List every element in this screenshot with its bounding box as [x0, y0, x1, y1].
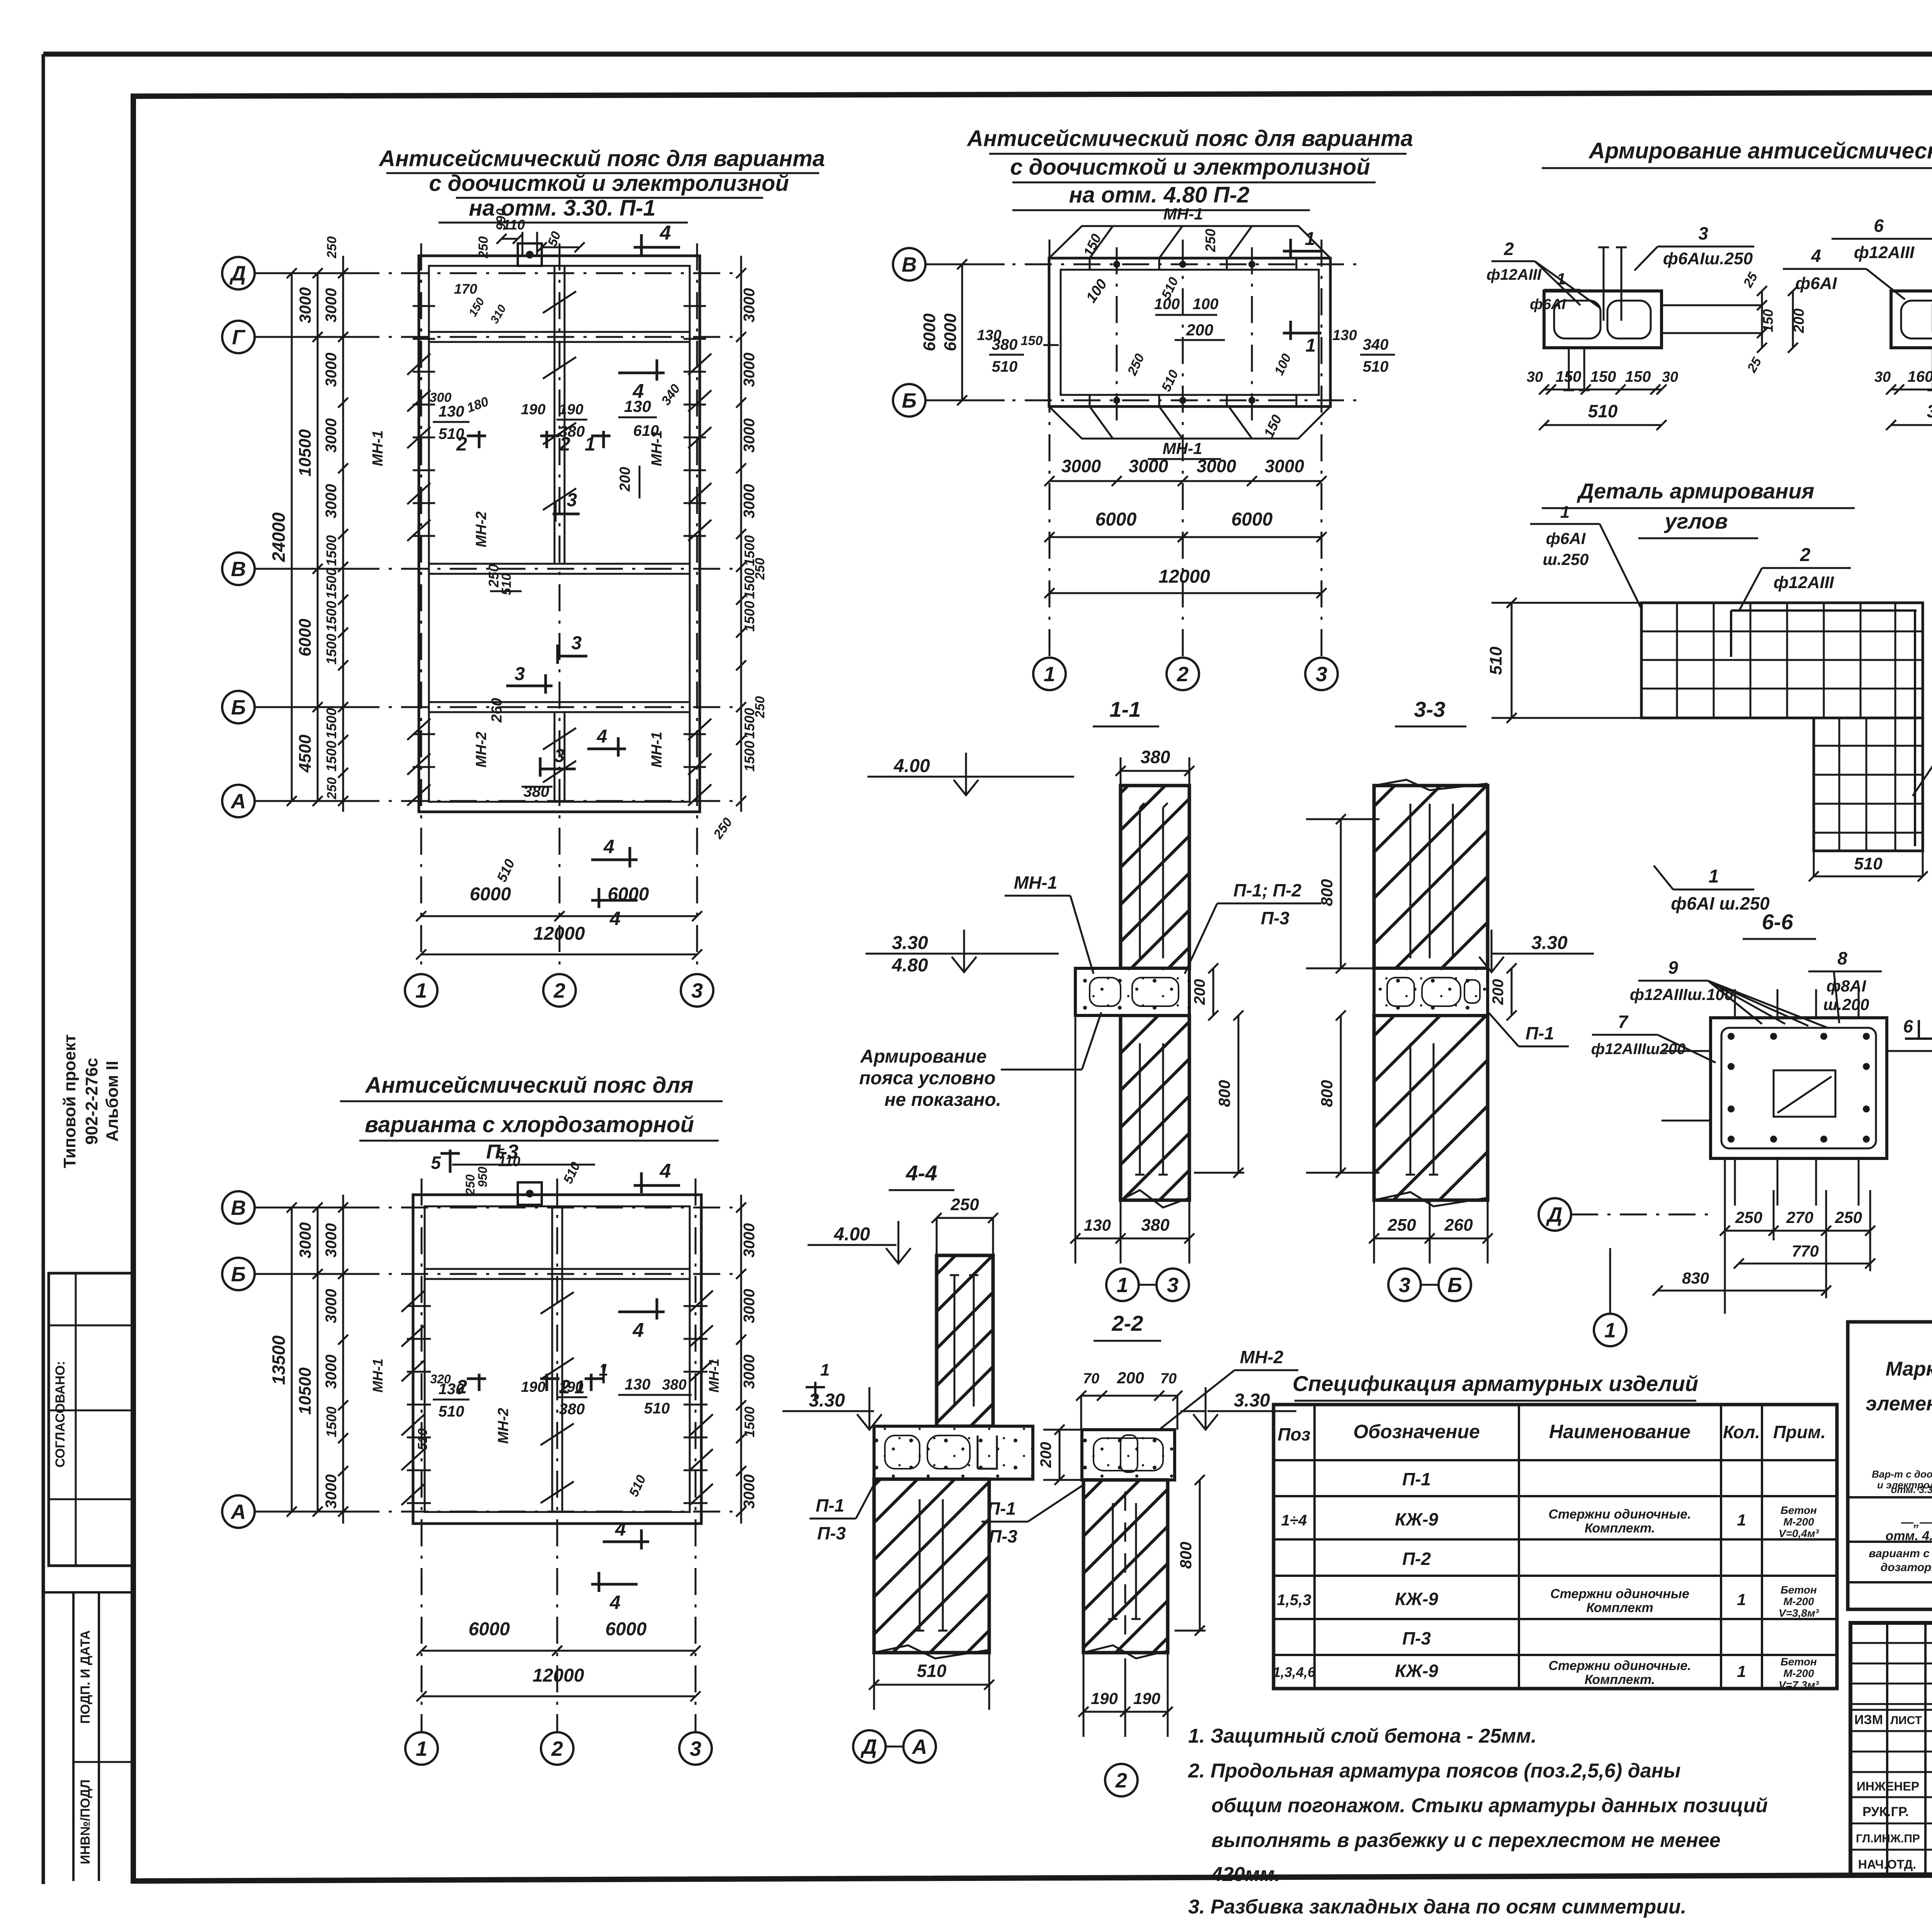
plan П-1 axis circles Д Г В Б А: [222, 257, 255, 289]
plan П-3 column circles 1 2 3: [405, 1732, 438, 1765]
svg-text:1500: 1500: [323, 741, 339, 772]
svg-text:3000: 3000: [1197, 456, 1236, 476]
svg-text:П-1; П-2: П-1; П-2: [1233, 880, 1301, 900]
section 4-4 lower wall rebar: [919, 1499, 921, 1631]
svg-text:6000: 6000: [608, 884, 649, 905]
svg-text:выполнять в разбежку и с пере: выполнять в разбежку и с перехлестом не …: [1211, 1829, 1721, 1852]
stamp row ИЗМ ЛИСТ ДОКУМ: [1850, 1709, 1932, 1711]
svg-text:800: 800: [1318, 879, 1336, 906]
plan П-1 left dimension chain groups: [317, 273, 319, 801]
left margin table ИНВ ПОДЛ ПОДП: [72, 1592, 75, 1881]
svg-text:1500: 1500: [323, 535, 339, 566]
svg-text:200: 200: [617, 467, 633, 492]
svg-text:Антисейсмический пояс для вари: Антисейсмический пояс для варианта: [966, 126, 1413, 151]
svg-text:1. Защитный слой бетона - 25мм: 1. Защитный слой бетона - 25мм.: [1188, 1725, 1537, 1747]
svg-text:4.00: 4.00: [893, 756, 930, 776]
section 2-2 bottom break: [1083, 1645, 1168, 1658]
svg-text:2: 2: [1115, 1769, 1127, 1792]
svg-text:элемента: элемента: [1866, 1393, 1932, 1415]
svg-text:1,5,3: 1,5,3: [1277, 1592, 1311, 1609]
svg-text:250: 250: [753, 558, 767, 580]
svg-text:П-3: П-3: [1261, 908, 1289, 928]
section 1-1 dim 380 top: [1121, 770, 1189, 772]
svg-text:М-200: М-200: [1783, 1667, 1814, 1679]
svg-text:3. Разбивка закладных дана по: 3. Разбивка закладных дана по осям симме…: [1188, 1896, 1686, 1918]
svg-text:П-1: П-1: [1526, 1023, 1554, 1043]
plan П-2 axis circles В Б: [893, 248, 925, 281]
svg-text:дозаторной: дозаторной: [1881, 1561, 1932, 1574]
svg-text:А: А: [230, 790, 246, 813]
svg-text:190: 190: [559, 401, 583, 418]
svg-text:Прим.: Прим.: [1773, 1422, 1826, 1442]
section 2-2 rebar legs: [1112, 1503, 1114, 1619]
svg-text:2: 2: [551, 1737, 563, 1760]
plan П-2 section flags 1: [1283, 250, 1321, 253]
beam section A outer: [1544, 291, 1662, 348]
svg-text:4: 4: [609, 908, 621, 929]
section 1-1 wall hatched below belt: [1121, 1015, 1189, 1200]
svg-text:2: 2: [1800, 545, 1811, 565]
svg-text:П-3: П-3: [1402, 1628, 1431, 1648]
svg-text:1: 1: [1709, 866, 1719, 887]
svg-text:3: 3: [1399, 1274, 1410, 1297]
svg-text:1: 1: [820, 1361, 830, 1379]
section 1-1 bottom dims 130 380: [1075, 1238, 1189, 1240]
svg-text:260: 260: [1444, 1216, 1473, 1235]
svg-text:1÷4: 1÷4: [1281, 1512, 1307, 1529]
svg-text:3000: 3000: [296, 1222, 314, 1258]
svg-text:6-6: 6-6: [1762, 910, 1794, 934]
svg-text:1500: 1500: [323, 568, 339, 599]
svg-text:Комплект.: Комплект.: [1585, 1672, 1655, 1687]
plan П-3 outer walls: [413, 1195, 701, 1524]
svg-text:3000: 3000: [741, 1475, 758, 1509]
svg-text:Б: Б: [902, 389, 917, 412]
svg-text:4500: 4500: [296, 735, 315, 773]
section 3-3 dim 200 right: [1511, 968, 1513, 1015]
svg-text:5: 5: [497, 1146, 505, 1161]
svg-text:200: 200: [1117, 1369, 1144, 1387]
svg-text:510: 510: [415, 1429, 430, 1451]
svg-text:Д: Д: [1546, 1203, 1563, 1226]
svg-text:ф12АIII: ф12АIII: [1774, 573, 1834, 592]
section 4-4 dim 250 top: [937, 1217, 993, 1219]
svg-text:МН-1: МН-1: [706, 1359, 722, 1393]
svg-text:6000: 6000: [605, 1619, 647, 1639]
svg-text:Комплект: Комплект: [1586, 1600, 1653, 1615]
svg-text:990: 990: [494, 209, 509, 231]
svg-text:СОГЛАСОВАНО:: СОГЛАСОВАНО:: [53, 1361, 68, 1468]
svg-text:510: 510: [1854, 854, 1883, 873]
svg-text:250: 250: [325, 236, 339, 259]
svg-text:Альбом II: Альбом II: [103, 1061, 122, 1141]
svg-text:Бетон: Бетон: [1781, 1584, 1817, 1596]
section 3-3 bottom break line: [1374, 1192, 1488, 1206]
svg-text:3: 3: [571, 633, 582, 653]
plan П-3 bottom dimension chains: [422, 1650, 557, 1652]
svg-text:380: 380: [559, 423, 585, 440]
svg-text:8: 8: [1837, 948, 1847, 968]
svg-text:1500: 1500: [323, 634, 339, 665]
section 4-4 dim 510 bottom: [874, 1684, 989, 1686]
stamp left thin rows: [1850, 1642, 1932, 1644]
svg-text:Стержни одиночные.: Стержни одиночные.: [1548, 1507, 1691, 1522]
svg-text:3: 3: [1316, 663, 1327, 686]
corner detail dim 510 left: [1511, 603, 1513, 718]
plan П-1 section flags 3: [553, 513, 580, 515]
spec table grid: [1274, 1405, 1837, 1689]
svg-text:150: 150: [1590, 368, 1616, 385]
svg-text:V=3,8м³: V=3,8м³: [1779, 1607, 1819, 1619]
svg-text:П-1: П-1: [987, 1498, 1016, 1519]
svg-text:5: 5: [431, 1153, 441, 1173]
svg-text:3000: 3000: [741, 418, 758, 453]
svg-text:П-3: П-3: [817, 1523, 846, 1543]
svg-text:3000: 3000: [323, 418, 340, 453]
svg-text:3000: 3000: [1265, 456, 1304, 476]
svg-text:10500: 10500: [296, 1367, 315, 1415]
svg-text:не показано.: не показано.: [884, 1090, 1001, 1110]
svg-text:250: 250: [1387, 1216, 1416, 1235]
plan П-1 section flag 4 mid: [618, 372, 665, 374]
svg-text:3000: 3000: [323, 484, 340, 519]
plan П-3 wall on axis 2: [551, 1206, 553, 1512]
svg-text:МН-1: МН-1: [1014, 872, 1057, 893]
svg-text:30: 30: [1662, 369, 1678, 385]
svg-text:130: 130: [439, 403, 464, 420]
svg-text:4: 4: [660, 222, 671, 244]
svg-text:3.30: 3.30: [1531, 933, 1568, 953]
svg-text:1: 1: [1556, 270, 1565, 288]
svg-text:200: 200: [1791, 308, 1807, 333]
svg-text:Стержни одиночные.: Стержни одиночные.: [1548, 1658, 1691, 1673]
svg-text:260: 260: [489, 698, 505, 723]
svg-text:V=0,4м³: V=0,4м³: [1779, 1527, 1819, 1539]
plan П-2 walls: [1049, 258, 1330, 406]
svg-text:3: 3: [1698, 223, 1708, 243]
svg-text:70: 70: [1160, 1371, 1177, 1387]
beam section A slab extension: [1662, 304, 1762, 306]
section 1-1 axis circles 1 3: [1106, 1269, 1139, 1301]
svg-text:с доочисткой и электролизной: с доочисткой и электролизной: [1010, 155, 1370, 180]
svg-text:190: 190: [1133, 1689, 1160, 1708]
svg-text:Марка: Марка: [1886, 1358, 1932, 1380]
section 1-1 dim 200 right: [1213, 968, 1214, 1015]
plan П-3 section flags 4 below: [603, 1541, 649, 1543]
plan П-3 section flag 4 top: [634, 1184, 680, 1187]
svg-text:6000: 6000: [1231, 509, 1273, 530]
plan П-3 section flag 5 top: [449, 1150, 452, 1173]
svg-text:МН-2: МН-2: [495, 1408, 512, 1444]
svg-text:МН-1: МН-1: [370, 430, 386, 466]
section 1-1 dim 800 right: [1238, 1015, 1240, 1173]
svg-text:ИНЖЕНЕР: ИНЖЕНЕР: [1857, 1779, 1919, 1793]
svg-text:1: 1: [1306, 335, 1316, 356]
svg-text:1500: 1500: [323, 1406, 339, 1437]
plan П-2 column circles 1 2 3: [1033, 658, 1066, 690]
svg-text:1: 1: [415, 979, 427, 1002]
svg-text:ф12АIII: ф12АIII: [1486, 266, 1542, 283]
svg-text:3000: 3000: [741, 484, 758, 519]
svg-text:ф6АI ш.250: ф6АI ш.250: [1671, 893, 1770, 913]
section 2-2 bottom dims 190 190: [1083, 1711, 1168, 1713]
svg-text:отм. 3.30: отм. 3.30: [1891, 1484, 1932, 1495]
svg-text:Спецификация арматурных изде: Спецификация арматурных изделий: [1293, 1371, 1698, 1396]
svg-text:ЛИСТ: ЛИСТ: [1890, 1714, 1922, 1727]
svg-text:1-1: 1-1: [1110, 697, 1141, 721]
plan П-1 overall dimension 24000: [291, 273, 293, 801]
svg-text:6000: 6000: [920, 313, 939, 351]
svg-text:Д: Д: [230, 262, 246, 285]
svg-text:510: 510: [644, 1400, 670, 1417]
beam section A rebar loops: [1554, 301, 1600, 338]
svg-text:6000: 6000: [1095, 509, 1137, 530]
svg-text:6000: 6000: [470, 884, 511, 905]
plan П-3 section flag 4 mid: [618, 1311, 665, 1313]
svg-text:Бетон: Бетон: [1781, 1656, 1817, 1668]
sheet outer border left: [42, 54, 45, 1884]
svg-text:4: 4: [660, 1160, 671, 1182]
svg-text:4.80: 4.80: [891, 955, 928, 976]
svg-text:10500: 10500: [296, 429, 315, 476]
svg-text:ф6АI: ф6АI: [1530, 296, 1566, 313]
svg-text:вариант с хлор-: вариант с хлор-: [1869, 1547, 1932, 1560]
plan П-1 section flag 4 bottom inner: [587, 748, 626, 750]
svg-text:Обозначение: Обозначение: [1353, 1421, 1480, 1442]
svg-text:3000: 3000: [296, 287, 314, 323]
section 2-2 lower wall hatched: [1083, 1480, 1168, 1653]
plan П-3 wall hatch marks: [401, 1291, 425, 1312]
svg-text:250: 250: [753, 696, 767, 719]
svg-text:12000: 12000: [1158, 566, 1210, 587]
section 2-2 belt: [1082, 1430, 1175, 1480]
svg-text:3.30: 3.30: [892, 933, 928, 953]
svg-text:420мм.: 420мм.: [1211, 1863, 1280, 1886]
svg-text:КЖ-9: КЖ-9: [1395, 1509, 1438, 1529]
svg-text:Г: Г: [232, 326, 246, 349]
svg-text:800: 800: [1177, 1542, 1195, 1569]
stamp left section verticals: [1886, 1623, 1888, 1876]
svg-text:2: 2: [1177, 663, 1189, 686]
svg-text:4: 4: [609, 1592, 621, 1613]
corner detail dim 510 bottom: [1814, 876, 1923, 878]
svg-text:4: 4: [597, 726, 607, 747]
beam section A legs down: [1568, 348, 1570, 390]
svg-text:2: 2: [553, 979, 565, 1002]
svg-text:Б: Б: [231, 696, 246, 719]
svg-text:830: 830: [1682, 1269, 1709, 1287]
plan П-1 wall on axis 2 lower: [554, 712, 556, 802]
section 3-3 wall hatched below belt: [1374, 1015, 1488, 1200]
plan П-1 wall on axis Б: [429, 701, 690, 703]
svg-text:12000: 12000: [532, 1665, 584, 1686]
svg-text:Стержни одиночные: Стержни одиночные: [1550, 1587, 1689, 1601]
corner detail mesh vertical arm: [1814, 718, 1923, 851]
svg-text:2: 2: [1503, 239, 1514, 259]
svg-text:1: 1: [1737, 1662, 1746, 1680]
svg-text:510: 510: [917, 1661, 947, 1681]
corner detail mesh horizontal arm: [1641, 603, 1923, 718]
svg-text:4: 4: [1811, 246, 1821, 266]
plan П-3 wall on axis Б: [425, 1268, 690, 1270]
svg-text:770: 770: [1792, 1242, 1819, 1260]
section 1-1 rebar in wall: [1139, 808, 1141, 958]
svg-text:РУК.ГР.: РУК.ГР.: [1862, 1804, 1909, 1819]
svg-text:3000: 3000: [323, 288, 340, 323]
svg-text:380: 380: [559, 1401, 585, 1418]
svg-text:70: 70: [1083, 1371, 1099, 1387]
svg-text:1500: 1500: [742, 741, 757, 772]
svg-text:отм. 4.80: отм. 4.80: [1886, 1529, 1932, 1543]
svg-text:130: 130: [624, 397, 651, 415]
svg-text:1,3,4,6: 1,3,4,6: [1273, 1664, 1316, 1680]
svg-text:А: А: [230, 1500, 246, 1524]
svg-text:1: 1: [416, 1737, 427, 1760]
section 2-2 dim 800 right: [1199, 1480, 1201, 1631]
section 4-4 bottom break: [874, 1645, 989, 1658]
svg-text:1: 1: [1117, 1274, 1128, 1297]
section 6-6 inner duct: [1774, 1070, 1835, 1117]
section 6-6 wall continuation lines: [1734, 989, 1736, 1018]
svg-text:1: 1: [1737, 1511, 1746, 1529]
svg-text:П-1: П-1: [1402, 1469, 1431, 1489]
beam section B bottom dims: [1891, 389, 1932, 391]
svg-text:1: 1: [1305, 229, 1315, 249]
svg-text:510: 510: [1588, 401, 1618, 421]
svg-text:Армирование антисейсмических: Армирование антисейсмических поясов: [1588, 138, 1932, 163]
svg-text:ПОДП. И ДАТА: ПОДП. И ДАТА: [78, 1630, 93, 1724]
svg-text:3: 3: [1167, 1274, 1179, 1297]
svg-text:190: 190: [559, 1379, 583, 1395]
svg-text:углов: углов: [1663, 509, 1728, 533]
plan П-1 left dimension chain fine: [342, 256, 344, 812]
svg-text:НАЧ.ОТД.: НАЧ.ОТД.: [1858, 1857, 1916, 1871]
beam section B outer: [1891, 291, 1932, 348]
svg-text:Типовой проект: Типовой проект: [60, 1034, 79, 1168]
svg-text:пояса условно: пояса условно: [859, 1068, 996, 1088]
section 4-4 upper wall hatched: [937, 1255, 993, 1426]
plan П-3 top corner detail: [518, 1182, 542, 1205]
section 1-1 belt: [1075, 968, 1189, 1015]
svg-text:190: 190: [521, 1379, 545, 1395]
beam section A right dims: [1761, 291, 1763, 348]
svg-text:150: 150: [1021, 333, 1043, 348]
plan П-1 section flags 4 below plan: [591, 859, 638, 861]
svg-text:510: 510: [992, 358, 1018, 375]
section 1-1 wall hatched above belt: [1121, 786, 1189, 968]
section 6-6 column box outer: [1711, 1018, 1887, 1158]
section 3-3 dim 800 left upper: [1340, 819, 1342, 968]
svg-text:950: 950: [476, 1167, 490, 1187]
svg-text:3000: 3000: [741, 1223, 758, 1258]
svg-text:6: 6: [1874, 216, 1884, 236]
section 3-3 bottom dims 250 260: [1374, 1238, 1488, 1240]
beam section A bottom dims: [1544, 389, 1662, 391]
section 2-2 axis circle 2: [1105, 1764, 1138, 1796]
section 2-2 top dims 70 200 70: [1081, 1395, 1177, 1397]
plan П-2 axis centre lines: [927, 264, 1360, 265]
svg-text:6000: 6000: [469, 1619, 510, 1639]
plan П-3 right dimension chain: [740, 1195, 742, 1524]
svg-text:250: 250: [325, 777, 339, 800]
svg-text:ИНВ№/ПОДЛ: ИНВ№/ПОДЛ: [78, 1779, 93, 1864]
plan П-3 left dimension chains: [342, 1195, 344, 1524]
section 1-1 bottom break line: [1121, 1190, 1189, 1207]
plan П-1 section flag 4 top: [634, 246, 680, 249]
svg-text:общим погонажом. Стыки армату: общим погонажом. Стыки арматуры данных п…: [1211, 1794, 1768, 1817]
svg-text:250: 250: [476, 236, 491, 259]
svg-text:Комплект.: Комплект.: [1585, 1521, 1655, 1536]
svg-text:Армирование: Армирование: [860, 1046, 987, 1067]
svg-text:150: 150: [1760, 309, 1776, 332]
svg-text:190: 190: [521, 401, 545, 418]
svg-text:6: 6: [1903, 1016, 1913, 1036]
plan П-1 outer walls: [419, 256, 700, 812]
svg-text:МН-1: МН-1: [649, 732, 665, 768]
svg-text:3000: 3000: [323, 1289, 340, 1323]
armatury data rows: [1848, 1496, 1932, 1498]
svg-text:3000: 3000: [323, 1355, 340, 1389]
svg-text:250: 250: [950, 1195, 979, 1214]
svg-text:Антисейсмический пояс для: Антисейсмический пояс для: [364, 1073, 693, 1098]
svg-text:ф12АIIIш200: ф12АIIIш200: [1591, 1041, 1685, 1058]
svg-text:Б: Б: [231, 1263, 246, 1286]
svg-text:МН-2: МН-2: [1240, 1347, 1284, 1367]
svg-text:902-2-276с: 902-2-276с: [82, 1058, 101, 1145]
svg-text:510: 510: [1363, 358, 1389, 375]
svg-text:6000: 6000: [941, 313, 960, 351]
svg-text:380: 380: [662, 1377, 686, 1393]
svg-text:380: 380: [1927, 401, 1932, 421]
svg-text:3: 3: [691, 979, 703, 1002]
section 4-4 upper wall rebar: [954, 1275, 956, 1406]
beam section B rebar loop: [1901, 301, 1932, 338]
svg-text:510: 510: [1486, 646, 1505, 675]
plan П-1 wall on axis Г: [429, 331, 690, 333]
svg-text:ф6АI: ф6АI: [1546, 529, 1586, 548]
armatury table outer: [1848, 1322, 1932, 1609]
svg-text:1500: 1500: [742, 1406, 757, 1437]
svg-text:ф6АI: ф6АI: [1795, 274, 1837, 293]
svg-text:6000: 6000: [296, 619, 315, 656]
svg-text:1: 1: [1044, 663, 1055, 686]
section 6-6 flag 6: [1905, 1037, 1932, 1040]
section 6-6 rebar dots: [1728, 1033, 1735, 1040]
svg-text:3: 3: [690, 1737, 701, 1760]
svg-text:4: 4: [603, 836, 614, 857]
svg-text:3000: 3000: [741, 1355, 758, 1389]
svg-text:3000: 3000: [1129, 456, 1168, 476]
svg-text:3: 3: [554, 746, 565, 766]
svg-text:ф12АIII: ф12АIII: [1854, 243, 1915, 262]
svg-text:Антисейсмический пояс для вари: Антисейсмический пояс для варианта: [378, 146, 825, 171]
svg-text:340: 340: [1363, 336, 1389, 353]
svg-text:М-200: М-200: [1783, 1516, 1814, 1528]
svg-text:1: 1: [1604, 1319, 1616, 1342]
svg-text:30: 30: [1527, 369, 1543, 385]
plan П-2 bottom trapezoid МН-1: [1049, 406, 1330, 439]
section 6-6 axis Д and circle 1: [1539, 1198, 1571, 1231]
left margin table СОГЛАСОВАНО: [49, 1273, 133, 1566]
plan П-2 top trapezoid МН-1: [1049, 226, 1330, 258]
svg-text:3000: 3000: [741, 353, 758, 387]
svg-text:1: 1: [1560, 503, 1570, 522]
svg-text:КЖ-9: КЖ-9: [1395, 1661, 1438, 1681]
plan П-3 wall cross ticks: [407, 1305, 431, 1307]
plan П-1 wall on axis 2 upper: [554, 266, 556, 564]
section 4-4 lower wall hatched: [874, 1479, 989, 1653]
svg-text:1500: 1500: [323, 601, 339, 632]
